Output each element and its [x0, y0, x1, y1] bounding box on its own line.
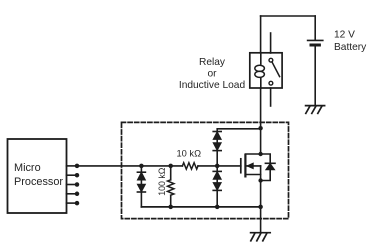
wire switch bottom stub (free end)	[270, 88, 272, 106]
node pin3	[75, 182, 80, 187]
microprocessor box U1	[8, 139, 67, 213]
svg-text:Processor: Processor	[14, 176, 63, 188]
node pin5	[75, 201, 80, 206]
wire resistor to gate	[198, 165, 241, 167]
pin 2 stub	[67, 174, 77, 176]
node clamp bottom	[215, 205, 220, 210]
body diode D7	[261, 154, 275, 181]
diode pair D1/D2 input clamp	[137, 166, 145, 207]
wire bottom rail	[141, 206, 260, 208]
wire coil top lead	[260, 16, 262, 53]
wire gate drive	[77, 165, 183, 167]
wire 12V top rail	[261, 15, 316, 17]
ground (battery)	[306, 106, 325, 114]
relay switch contact	[269, 58, 280, 85]
relay box K1	[250, 53, 282, 88]
ground (source)	[251, 233, 271, 241]
junction dots	[75, 126, 263, 209]
wire coil to drain	[260, 88, 262, 154]
pin 4 stub	[67, 193, 77, 195]
svg-text:10 kΩ: 10 kΩ	[177, 148, 202, 158]
node pin4	[75, 192, 80, 197]
mosfet Q1	[241, 154, 261, 176]
svg-text:Inductive Load: Inductive Load	[179, 80, 246, 91]
node pin2	[75, 173, 80, 178]
node input clamp top	[139, 164, 144, 169]
diode stack D3/D4 gate-drain clamp	[213, 129, 260, 166]
pin 5 stub	[67, 202, 77, 204]
relay coil	[255, 53, 265, 88]
wire battery top lead	[314, 16, 316, 40]
node R2 top	[168, 164, 173, 169]
node source rail	[258, 205, 263, 210]
svg-text:or: or	[207, 69, 217, 80]
wire switch top lead (free end)	[270, 33, 272, 53]
node pin1	[75, 164, 80, 169]
node drain clamp	[258, 126, 262, 130]
svg-text:Battery: Battery	[334, 42, 367, 53]
svg-text:12 V: 12 V	[334, 30, 355, 41]
resistor R2 100k vertical	[168, 166, 174, 207]
node body diode anode	[258, 178, 262, 182]
pin 3 stub	[67, 184, 77, 186]
wire source to ground	[260, 166, 262, 232]
pin 1 stub	[67, 165, 77, 167]
svg-text:Relay: Relay	[199, 57, 226, 68]
battery B1 12V	[308, 40, 323, 104]
node gate clamp	[215, 164, 220, 169]
dashed boundary box	[122, 122, 289, 218]
diode stack D5/D6 gate-source clamp	[213, 166, 221, 207]
svg-text:100 kΩ: 100 kΩ	[157, 167, 167, 196]
node R2 bottom	[168, 205, 173, 210]
resistor R1 10k zigzag	[182, 163, 198, 169]
node drain	[258, 152, 262, 156]
svg-text:Micro: Micro	[14, 162, 41, 174]
